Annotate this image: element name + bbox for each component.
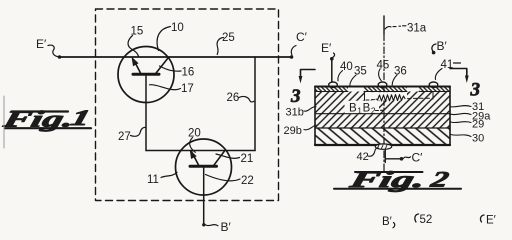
svg-text:B′: B′ [221, 220, 232, 234]
svg-text:C′: C′ [296, 30, 308, 44]
dashed enclosure box [96, 9, 279, 201]
label 31 (right) [451, 101, 485, 113]
device outline [315, 87, 450, 146]
label 41 [435, 59, 460, 80]
label 22 [206, 175, 254, 188]
label 42 [357, 148, 379, 163]
resistor squiggle [366, 95, 430, 101]
svg-text:10: 10 [171, 22, 184, 34]
label 31b [286, 107, 317, 119]
svg-text:31a: 31a [407, 23, 427, 35]
svg-text:3: 3 [290, 86, 301, 107]
svg-text:25: 25 [222, 32, 235, 44]
label 29b [284, 125, 317, 137]
layer 29/29a body [315, 114, 450, 128]
page edge line [3, 96, 5, 148]
label 10 [157, 22, 184, 51]
svg-text:45: 45 [377, 60, 390, 72]
wire: transistor 11 base lead to B' [203, 168, 205, 225]
wire E' to C' (lead 25) [60, 56, 292, 58]
annotation E' (bottom) [480, 215, 495, 227]
label B1B2 window [345, 101, 384, 116]
label 20 [188, 128, 201, 153]
svg-text:16: 16 [182, 67, 195, 79]
label 31a [385, 23, 427, 35]
transistor 10 [118, 47, 174, 103]
svg-text:26: 26 [227, 92, 240, 104]
label 36 [392, 66, 407, 86]
svg-text:42: 42 [357, 151, 369, 163]
layer boundary lines [315, 113, 450, 115]
contact bump 45 [378, 82, 387, 87]
svg-text:3: 3 [470, 80, 481, 101]
label 35 [350, 66, 367, 87]
svg-text:C′: C′ [412, 151, 424, 165]
node B' terminal [202, 220, 231, 234]
label 29 [451, 119, 485, 131]
label 21 [216, 153, 253, 165]
svg-text:E′: E′ [321, 41, 332, 55]
label 15 [128, 26, 143, 57]
layer 30 body [315, 128, 450, 145]
annotation B' (bottom) [382, 216, 395, 228]
svg-text:E′: E′ [36, 37, 47, 51]
figure caption Fig.1 [0, 105, 93, 132]
contact bump 41 [429, 82, 438, 87]
node E' terminal [36, 37, 61, 59]
label 11 [147, 172, 177, 186]
section arrow 3 (right) [450, 69, 480, 101]
svg-text:52: 52 [420, 214, 433, 226]
terminal B' (fig2) [432, 39, 448, 54]
svg-text:17: 17 [181, 83, 194, 95]
annotation 52 (bottom) [415, 214, 432, 226]
label 17 [150, 83, 194, 95]
svg-text:31b: 31b [286, 107, 304, 119]
contact stripe segments (35/36) [315, 87, 450, 92]
label 45 [377, 60, 390, 81]
section line 31a [383, 16, 385, 171]
wire 26: vertical right [254, 57, 256, 151]
node C' terminal [290, 30, 308, 59]
svg-text:30: 30 [472, 133, 484, 145]
label 27 [118, 127, 146, 143]
figure caption Fig.2 [334, 167, 461, 193]
label 30 [451, 133, 485, 145]
svg-text:21: 21 [241, 153, 254, 165]
svg-text:29b: 29b [284, 125, 302, 137]
svg-text:B′: B′ [382, 216, 392, 228]
node C' (fig2) [385, 149, 423, 164]
svg-text:29: 29 [472, 119, 484, 131]
svg-text:11: 11 [147, 174, 159, 186]
section arrow 3 (left) [290, 70, 315, 108]
label 25 [217, 32, 235, 55]
label 29a [451, 111, 492, 123]
label 26 [227, 92, 255, 104]
bottom contact 42 [375, 144, 391, 149]
wire: transistor 10 base lead down [145, 76, 147, 151]
transistor 11 [176, 139, 232, 195]
wire: bottom horizontal [146, 150, 255, 152]
label 16 [160, 66, 195, 79]
contact bump 40 [329, 82, 338, 87]
label 40 [338, 61, 353, 81]
window for resistor B1B2 [365, 92, 434, 101]
svg-text:B′: B′ [437, 39, 448, 53]
svg-text:20: 20 [188, 128, 201, 140]
svg-text:E′: E′ [486, 215, 496, 227]
svg-text:22: 22 [241, 175, 254, 187]
svg-text:27: 27 [118, 131, 131, 143]
layer 31 body [315, 92, 450, 114]
terminal E' (fig2) [321, 41, 335, 83]
